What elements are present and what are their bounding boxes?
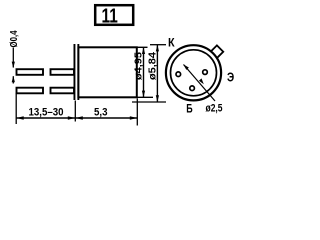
outer flange circle bbox=[166, 45, 221, 100]
svg-text:5,3: 5,3 bbox=[94, 106, 108, 118]
upper lead segment 1 bbox=[17, 69, 44, 75]
lower lead segment 2 bbox=[51, 88, 75, 94]
upper lead segment 2 bbox=[51, 69, 75, 75]
svg-text:ø2,5: ø2,5 bbox=[206, 102, 223, 114]
lead diameter arrow lower bbox=[12, 76, 14, 83]
key tab bbox=[211, 45, 224, 58]
extension line body bottom bbox=[137, 96, 153, 98]
lead diameter arrow upper bbox=[12, 48, 14, 68]
svg-text:11: 11 bbox=[102, 5, 118, 27]
dimension line bottom bbox=[16, 117, 137, 119]
extension line flange left bbox=[74, 101, 76, 122]
svg-text:ø5,84: ø5,84 bbox=[148, 52, 159, 80]
svg-text:К: К bbox=[168, 35, 175, 49]
svg-text:Б: Б bbox=[186, 102, 193, 116]
inner can circle bbox=[171, 50, 217, 96]
flange back line bbox=[77, 44, 79, 100]
pin B bbox=[190, 86, 195, 91]
extension line body top bbox=[137, 46, 148, 48]
extension line lead tip bbox=[15, 93, 17, 124]
package variant box 11 bbox=[95, 5, 133, 25]
extension line flange top bbox=[150, 44, 166, 46]
dimension line body diameter bbox=[143, 47, 145, 97]
svg-text:ø4,95: ø4,95 bbox=[134, 52, 145, 80]
pin E bbox=[203, 70, 208, 75]
svg-text:13,5–30: 13,5–30 bbox=[29, 106, 64, 118]
flange front line bbox=[74, 44, 76, 100]
extension line flange bottom bbox=[132, 101, 166, 103]
pin circle diameter line bbox=[184, 65, 216, 102]
can body bbox=[78, 47, 136, 97]
extension line body right bbox=[136, 99, 138, 126]
pin K bbox=[176, 72, 181, 77]
lower lead segment 1 bbox=[17, 88, 44, 94]
svg-text:Ø0,4: Ø0,4 bbox=[9, 30, 20, 47]
svg-text:Э: Э bbox=[227, 69, 234, 84]
dimension line flange diameter bbox=[156, 45, 158, 102]
